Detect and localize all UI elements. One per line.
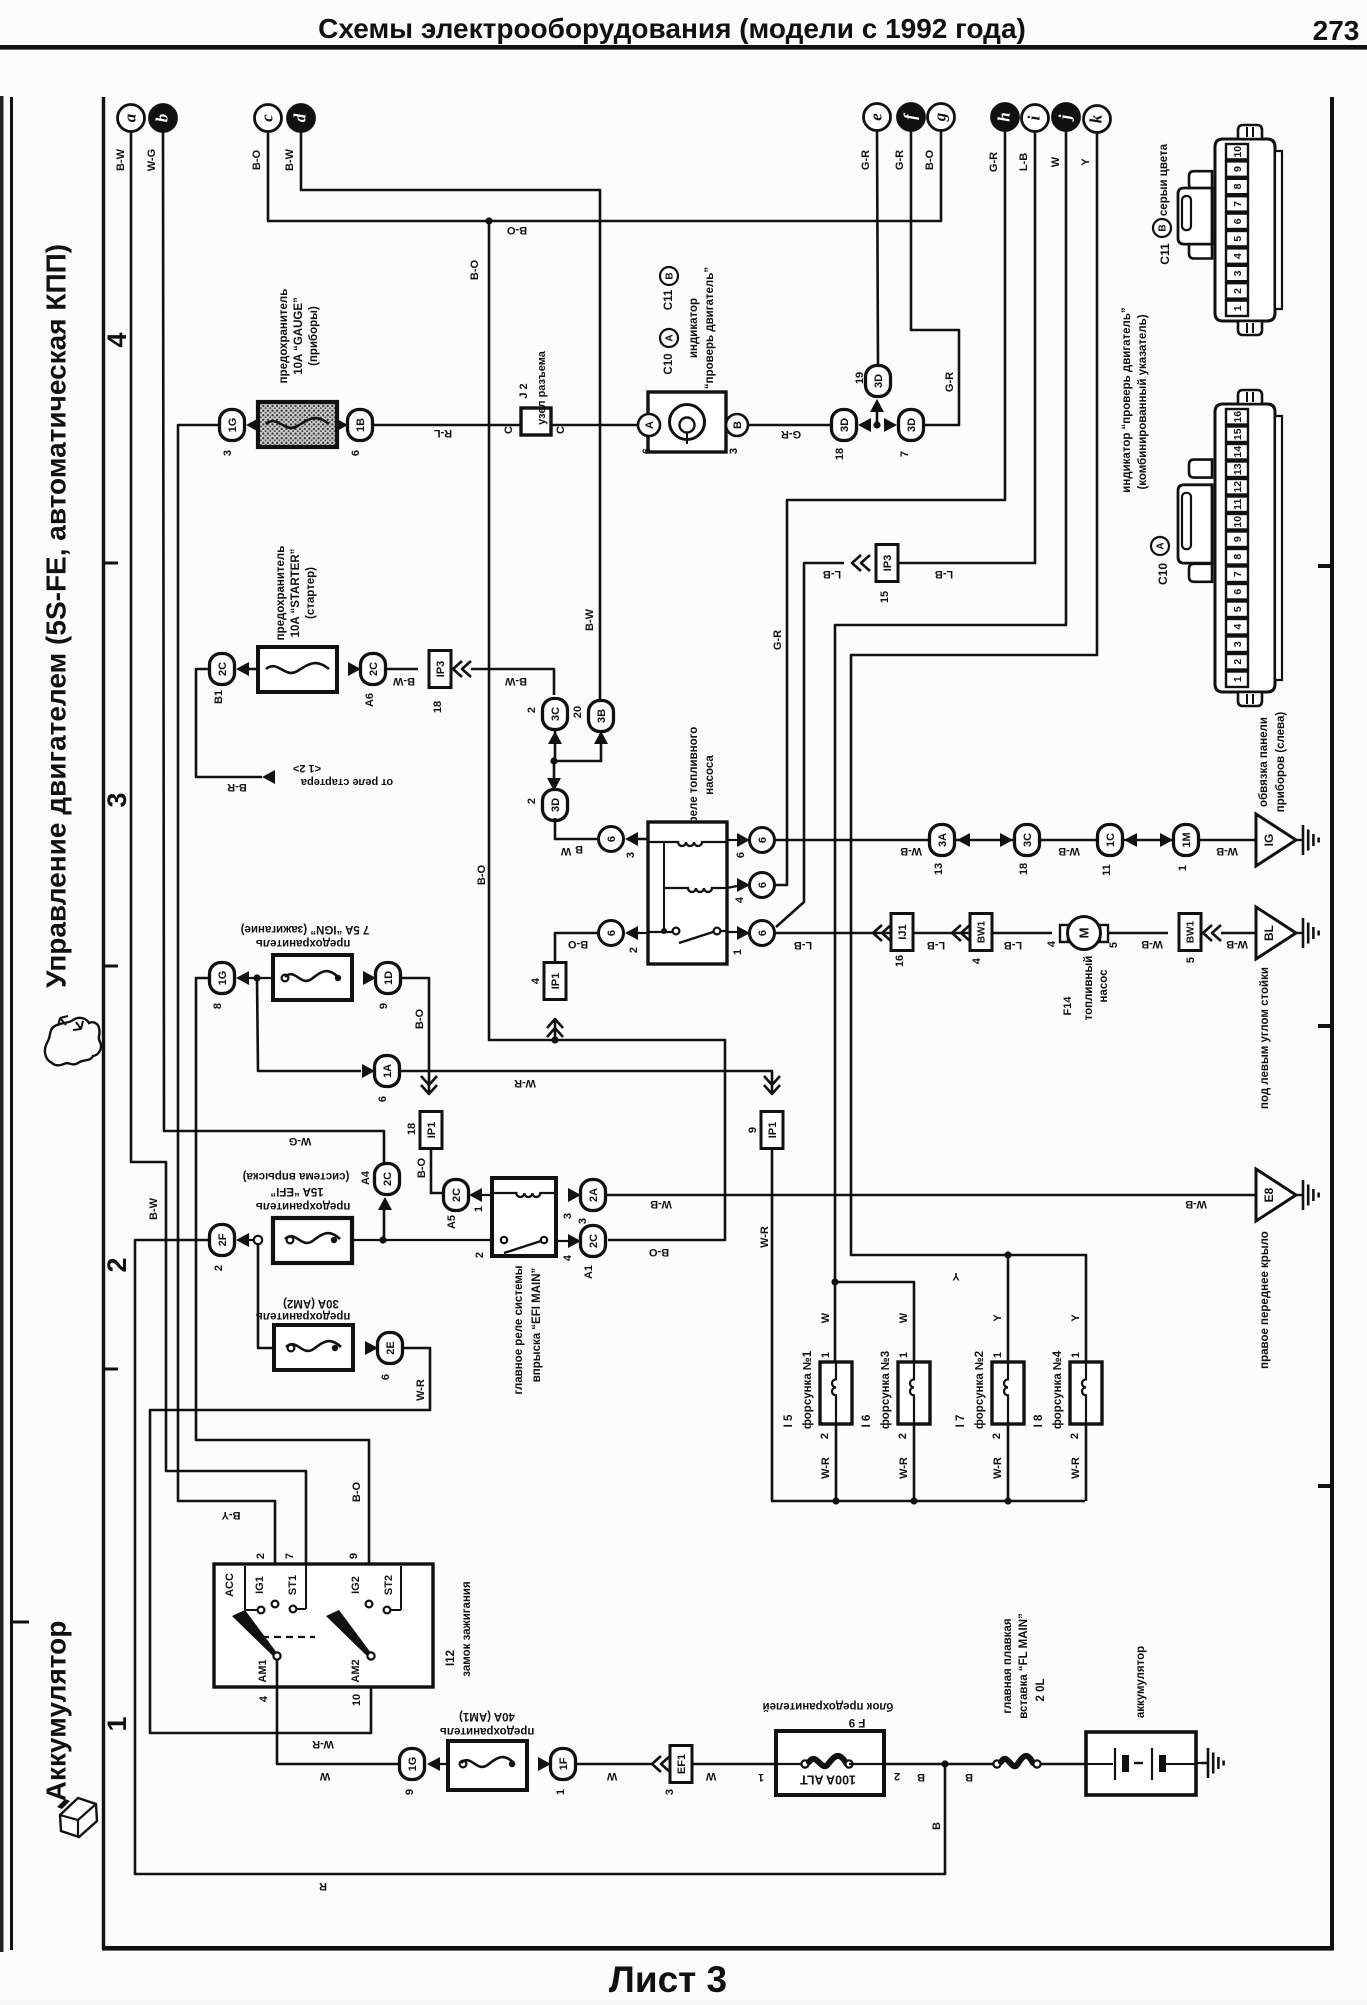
wire 1G-3 down to IG1 [178,425,275,1600]
contact IG1 [272,1601,279,1608]
svg-text:3: 3 [728,448,740,454]
wire B-O drop to IP1-4 [489,221,555,1040]
switch ignition I12 box [214,1564,433,1687]
node e terminal [864,104,891,131]
svg-text:W-B: W-B [1141,938,1163,950]
arrow into 3D-19 [870,399,884,412]
svg-text:IP1: IP1 [550,973,562,990]
svg-text:C: C [555,426,567,434]
EFI relay switch [501,1237,507,1243]
wire IP1-4 to fuel pump relay pin2 [555,933,600,963]
svg-text:3A: 3A [937,833,949,847]
junction box IP3 pin18 [429,651,451,688]
svg-text:100A ALT: 100A ALT [800,1773,856,1787]
svg-text:Схемы электрооборудования (мод: Схемы электрооборудования (модели с 1992… [318,13,1026,44]
svg-text:3: 3 [1232,270,1244,276]
svg-text:BW1: BW1 [1186,920,1197,943]
svg-text:B-O: B-O [567,938,588,950]
svg-text:W: W [705,1770,716,1782]
connector 1D pin9 [376,963,401,994]
svg-text:C10: C10 [1156,563,1170,585]
svg-text:B-O: B-O [414,1008,426,1029]
injector I8 форсунка №4 [1070,1362,1102,1424]
svg-text:W: W [606,1770,617,1782]
svg-text:реле топливного: реле топливного [688,727,700,824]
ground symbol BL [1296,932,1303,934]
svg-text:W-B: W-B [1226,938,1248,950]
wire d B-W [301,131,600,703]
contact ST2 with bracket [400,1566,402,1610]
indicator lamp check engine box [648,392,726,452]
svg-text:W-R: W-R [820,1457,832,1479]
svg-text:3: 3 [577,1218,589,1224]
svg-text:11: 11 [1101,864,1113,876]
svg-text:под левым углом стойки: под левым углом стойки [1259,967,1271,1109]
junction EFI out / A4 [352,1239,492,1241]
svg-text:10: 10 [351,1694,363,1706]
junction B-O IP1-4 [551,1036,558,1043]
frame left tick 2 [104,965,119,968]
battery cells [1086,1763,1113,1765]
connector 3C pin18 [1015,825,1040,856]
svg-text:6: 6 [350,450,362,456]
arrow into 3D-7 [884,418,897,432]
wire 3C to junction [554,730,557,761]
svg-text:A6: A6 [364,693,376,707]
svg-text:2: 2 [897,1433,909,1439]
svg-text:W: W [898,1312,910,1323]
svg-text:6: 6 [757,930,769,936]
wire arrow to starter fuse [249,668,258,671]
wire IP1-9 to injector bus [772,1148,1085,1501]
svg-text:1G: 1G [217,971,229,986]
svg-text:IJ1: IJ1 [897,924,909,939]
svg-text:7 5A “IGN” (зажигание): 7 5A “IGN” (зажигание) [241,923,370,935]
svg-text:1: 1 [102,1716,132,1731]
wire junction to A1 branch [555,1040,725,1240]
wire pump to BW1-5 [1108,932,1168,935]
svg-text:IG1: IG1 [254,1576,266,1594]
wire into relay coil1 [637,838,648,841]
connector 2C B1 [210,654,235,685]
wire IP3-15 to relay pin1 diagonal [776,563,844,927]
svg-text:6: 6 [757,882,769,888]
svg-text:C11: C11 [663,289,675,310]
svg-text:замок зажигания: замок зажигания [461,1581,473,1676]
arrow into 2E [365,1341,378,1355]
svg-text:ACC: ACC [224,1573,236,1597]
svg-text:2: 2 [255,1553,267,1559]
node a terminal [118,105,145,132]
svg-text:8: 8 [1232,183,1244,189]
svg-text:W: W [319,1770,330,1782]
connector 1G pin8 [210,963,235,994]
scan edge strip [0,96,4,1952]
margin engine icon [45,1018,101,1066]
chevron IP3 [453,661,462,677]
junction bus I7 [1004,1497,1011,1504]
node h terminal [992,104,1019,131]
svg-text:W-G: W-G [289,1135,311,1147]
wire 2C A1 stub [556,1240,568,1242]
lever AM1 [232,1610,277,1657]
arrow into 3D [547,778,561,791]
svg-text:1C: 1C [1105,833,1117,847]
svg-text:A4: A4 [360,1170,372,1185]
frame right tick 2 [1318,1024,1332,1028]
relay switch common contact [673,928,680,935]
connector 1A pin6 [375,1056,400,1087]
svg-text:2C: 2C [451,1188,463,1202]
svg-text:3: 3 [664,1789,676,1795]
lever AM2 [326,1610,371,1657]
connector 2C A1 [581,1226,606,1257]
svg-text:1D: 1D [383,971,395,985]
wire junction to IP1-4 [554,1019,557,1040]
fuse block F9 100A ALT [776,1731,884,1795]
wire k Y to injectors [851,131,1097,1364]
svg-text:L-B: L-B [1004,939,1022,951]
svg-text:IP1: IP1 [767,1122,779,1139]
fuse 15A EFI [273,1218,352,1263]
battery box [1086,1732,1196,1795]
svg-text:W-B: W-B [1216,845,1238,857]
connector 1F pin1 [551,1749,576,1780]
connector 3D pin19 [866,366,891,397]
svg-text:1: 1 [1177,865,1189,871]
connector 2C A4 [375,1164,400,1195]
arrow into 1A [362,1064,375,1078]
fuse 40A AM1 [448,1741,527,1790]
svg-text:2: 2 [1232,288,1244,294]
junction battery B [941,1760,948,1767]
svg-text:B-O: B-O [351,1481,363,1502]
svg-text:7: 7 [284,1553,296,1559]
svg-text:4: 4 [734,896,746,903]
wire b W-G vertical [163,131,384,1164]
arrow into 1G-8 [236,971,249,985]
svg-text:G-R: G-R [988,152,1000,172]
chevron IP1-9 [764,1085,780,1094]
relay pin circle 2 lower-left [599,921,624,946]
svg-text:индикатор: индикатор [688,298,700,358]
node c terminal [255,105,282,132]
svg-text:2E: 2E [385,1341,397,1354]
svg-text:B-O: B-O [416,1157,428,1178]
svg-text:3: 3 [222,450,234,456]
junction open EFI/AM2 [254,1236,262,1244]
svg-text:1G: 1G [227,418,239,433]
svg-text:2F: 2F [217,1233,229,1246]
relay EFI MAIN box [492,1178,556,1256]
svg-text:(комбинированный указатель): (комбинированный указатель) [1137,314,1149,489]
arrow into 2C A5 [469,1188,482,1202]
svg-text:e: e [866,113,885,121]
svg-text:2: 2 [819,1433,831,1439]
svg-text:I12: I12 [445,1650,457,1666]
wire 3D-19 to e [877,131,878,366]
svg-text:форсунка №1: форсунка №1 [802,1350,814,1429]
svg-text:форсунка №3: форсунка №3 [880,1351,892,1429]
relay internal link [663,842,665,888]
arrow into 2A [568,1188,581,1202]
relay coil 1 [648,842,727,846]
svg-text:от реле стартера: от реле стартера [300,776,393,788]
svg-text:B1: B1 [213,690,225,704]
svg-text:AM1: AM1 [257,1659,269,1682]
svg-text:1A: 1A [382,1064,394,1078]
svg-text:8: 8 [212,1003,224,1009]
junction box IP1 pin4 [544,963,566,1000]
svg-text:7: 7 [1232,201,1244,207]
svg-text:3D: 3D [550,798,562,812]
svg-text:вставка “FL MAIN”: вставка “FL MAIN” [1018,1613,1030,1719]
svg-text:B: B [732,421,744,429]
svg-text:273: 273 [1313,15,1360,46]
node d terminal [288,105,315,132]
svg-text:9: 9 [378,1003,390,1009]
svg-text:топливный: топливный [1083,956,1095,1021]
svg-text:форсунка №2: форсунка №2 [974,1351,986,1429]
junction Y injector branch [1004,1251,1011,1258]
wire 1F to EF1 [575,1763,652,1766]
svg-text:3: 3 [102,792,132,807]
arrow out of 1C [1124,833,1137,847]
junction box IJ1 pin16 [891,914,913,951]
svg-text:16: 16 [1232,411,1244,423]
svg-text:IP3: IP3 [882,555,894,572]
svg-text:W-R: W-R [759,1226,771,1248]
svg-text:6: 6 [735,852,747,858]
connector 2C A6 [361,654,386,685]
svg-text:предохранитель: предохранитель [256,937,351,949]
svg-text:2: 2 [526,707,538,713]
injector I6 форсунка №3 [898,1362,930,1424]
junction 3C/3B/3D [550,757,557,764]
wire g B-O [489,131,941,221]
svg-text:1: 1 [732,949,744,955]
junction bus I6 [910,1497,917,1504]
wire I8 to bus [1085,1424,1088,1501]
svg-text:I 7: I 7 [955,1415,967,1428]
svg-text:R-L: R-L [434,427,453,439]
svg-text:6: 6 [606,930,618,936]
svg-text:2: 2 [474,1252,486,1258]
junction block J2 [521,408,551,435]
svg-text:2C: 2C [588,1234,600,1248]
wire F9 to battery [884,1763,994,1766]
svg-text:10: 10 [1232,146,1244,158]
junction box BW1 pin5 [1179,914,1201,951]
svg-text:узел разъема: узел разъема [536,350,548,425]
header rule [0,45,1367,50]
svg-text:B-O: B-O [506,224,527,236]
relay pin circle 1 lower-right [750,921,775,946]
svg-text:насос: насос [1098,969,1110,1003]
junction bus I5 [832,1497,839,1504]
svg-text:7: 7 [899,451,911,457]
wire a B-W vertical [131,131,306,1564]
svg-text:B-O: B-O [648,1246,669,1258]
svg-text:предохранитель: предохранитель [278,289,290,384]
svg-text:13: 13 [1232,463,1244,475]
wire relay pin6 to IG ground [775,839,1256,842]
wire A4 to EFI fuse junction [383,1210,386,1240]
fuse 10A STARTER [258,647,337,692]
svg-text:11: 11 [1232,499,1244,510]
svg-text:1: 1 [1232,676,1244,682]
svg-text:6: 6 [641,448,653,454]
chevron BW1-4 [952,925,961,941]
svg-text:1M: 1M [1181,832,1193,847]
svg-text:B-W: B-W [392,675,415,687]
wire 3B to junction [554,743,601,761]
contact AM2 [367,1652,374,1659]
svg-text:2A: 2A [588,1188,600,1202]
svg-text:BW1: BW1 [977,920,988,943]
chevron EF1 [652,1756,661,1772]
svg-text:3: 3 [562,1213,574,1219]
svg-text:B: B [931,1822,943,1830]
svg-text:3: 3 [1232,641,1244,647]
svg-text:4: 4 [258,1695,270,1702]
svg-text:5: 5 [1232,606,1244,612]
svg-text:BL: BL [1262,925,1276,941]
arrow into 1B [335,418,348,432]
fuse 30A AM2 [274,1325,353,1370]
svg-text:6: 6 [377,1096,389,1102]
connector drawing C10 combo meter [1215,404,1275,692]
svg-text:EF1: EF1 [676,1754,688,1774]
ground symbol battery [1201,1762,1208,1764]
wire B-R from starter relay stub [196,669,262,777]
arrow into 3B [594,731,608,744]
svg-text:4: 4 [1046,940,1058,947]
svg-text:B-W: B-W [284,148,296,171]
mechanical link dashed [262,1636,315,1638]
svg-text:6: 6 [1232,589,1244,595]
svg-text:IP1: IP1 [426,1122,438,1139]
svg-text:предохранитель: предохранитель [256,1200,351,1212]
svg-text:L-B: L-B [794,939,812,951]
svg-text:30A (AM2): 30A (AM2) [283,1297,339,1309]
svg-text:AM2: AM2 [350,1659,362,1682]
injector I5 форсунка №1 [820,1362,852,1424]
svg-text:9: 9 [747,1127,759,1133]
svg-text:k: k [1086,114,1105,123]
svg-text:1B: 1B [355,418,367,432]
svg-text:F14: F14 [1062,996,1074,1016]
frame bottom rail [102,1946,1334,1951]
svg-text:W-R: W-R [898,1457,910,1479]
chevron IP3-15 [852,555,861,571]
wire FL MAIN to battery box [1041,1763,1086,1766]
frame left tick 1 [104,562,119,565]
svg-text:a: a [120,113,139,122]
svg-text:b: b [152,114,171,123]
arrow into 1F [538,1757,551,1771]
svg-text:W-B: W-B [900,845,922,857]
svg-text:B-O: B-O [476,864,488,885]
svg-text:индикатор “проверь двигатель”: индикатор “проверь двигатель” [1121,307,1133,492]
svg-text:c: c [257,114,276,122]
svg-text:L-B: L-B [935,568,953,580]
svg-text:W-R: W-R [415,1379,427,1401]
arrow into 1G-9 [427,1757,440,1771]
svg-text:Y: Y [952,1270,960,1282]
svg-text:4: 4 [1232,624,1244,630]
node g terminal [928,104,955,131]
injector I7 форсунка №2 [992,1362,1024,1424]
connector 3B [589,701,614,732]
svg-text:15: 15 [879,591,891,603]
svg-text:18: 18 [834,448,846,460]
svg-text:4: 4 [530,977,542,984]
svg-text:ST2: ST2 [383,1575,395,1595]
arrow into 1G-3 [246,418,259,432]
svg-text:g: g [930,112,949,122]
junction box IP3 pin15 [876,545,898,582]
wire A6 to IP3 [385,668,418,671]
svg-text:(система впрыска): (система впрыска) [242,1170,349,1182]
svg-text:7: 7 [1232,571,1244,577]
svg-text:2C: 2C [217,662,229,676]
arrow into 1D [363,971,376,985]
svg-text:J 2: J 2 [518,383,530,398]
ground triangle BL [1256,907,1296,959]
svg-text:1: 1 [473,1206,485,1212]
svg-text:4: 4 [102,332,132,347]
svg-text:8: 8 [1232,554,1244,560]
svg-text:L-B: L-B [823,568,841,580]
connector 3D pin7 [899,410,924,441]
junction box EF1 pin3 [670,1746,692,1783]
svg-text:W-B: W-B [1185,1198,1207,1210]
svg-text:B-O: B-O [469,259,481,280]
svg-text:W-R: W-R [514,1077,536,1089]
wire junction to 3D [553,761,556,779]
arrow into relay pin4 [737,878,750,892]
relay pin circle 6 upper-right [750,828,775,853]
svg-text:1: 1 [992,1352,1004,1358]
svg-text:1: 1 [555,1789,567,1795]
svg-text:B-O: B-O [251,149,263,170]
svg-text:i: i [1024,115,1043,120]
frame left rail [102,97,105,1949]
wire I7 to bus [1007,1424,1010,1501]
junction 3D bus [873,421,880,428]
svg-text:15A “EFI”: 15A “EFI” [270,1185,323,1197]
svg-text:1: 1 [820,1352,832,1358]
svg-text:M: M [1076,928,1091,939]
svg-text:W-B: W-B [1058,845,1080,857]
svg-text:I 6: I 6 [861,1415,873,1428]
wire to BL ground [1221,932,1256,935]
arrow into relay pin6 [737,833,750,847]
wire j W to injectors [835,131,1066,1362]
ground triangle IG [1256,814,1296,866]
connector 2A pin3 [581,1180,606,1211]
connector 2C A5 [444,1180,469,1211]
svg-text:12: 12 [1232,481,1244,493]
svg-text:10A “STARTER”: 10A “STARTER” [290,549,302,638]
svg-text:главное реле системы: главное реле системы [513,1265,525,1394]
svg-text:9: 9 [1232,536,1244,542]
arrow into 1M [1160,833,1173,847]
wire c B-O [268,131,489,221]
node b terminal [150,105,177,132]
connector 1B pin6 [348,410,373,441]
